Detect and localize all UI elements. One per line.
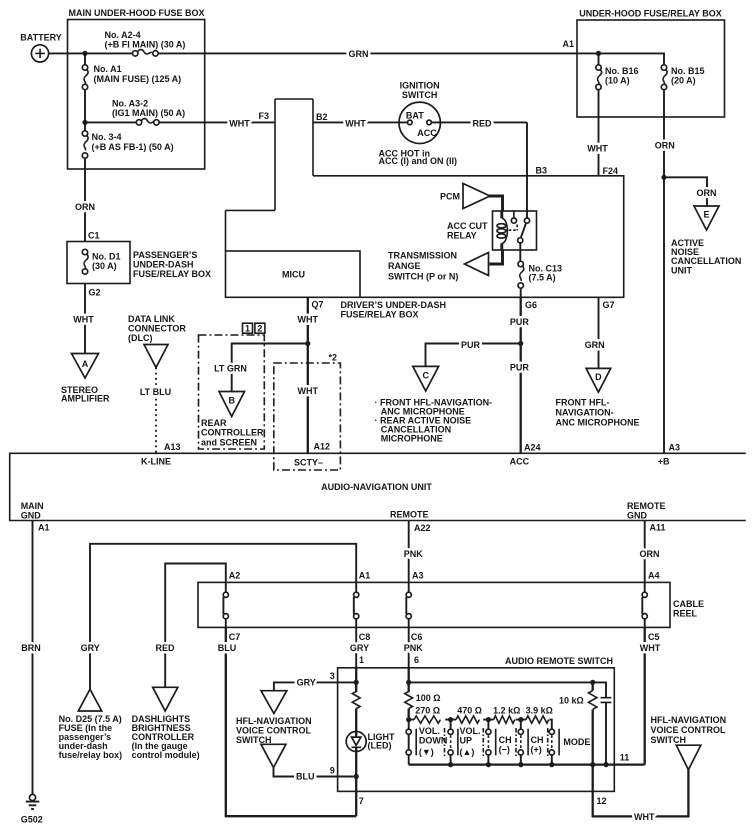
svg-text:7: 7	[359, 796, 364, 806]
svg-text:A13: A13	[164, 442, 181, 452]
svg-text:SWITCH: SWITCH	[651, 735, 687, 745]
svg-text:WHT: WHT	[229, 118, 250, 128]
svg-text:10 kΩ: 10 kΩ	[559, 696, 584, 706]
svg-text:AMPLIFIER: AMPLIFIER	[61, 394, 110, 404]
svg-text:PUR: PUR	[510, 362, 530, 372]
svg-text:B2: B2	[316, 112, 328, 122]
svg-text:BATTERY: BATTERY	[20, 33, 62, 43]
svg-text:A11: A11	[650, 523, 666, 533]
svg-text:UNDER-HOOD FUSE/RELAY BOX: UNDER-HOOD FUSE/RELAY BOX	[579, 8, 722, 18]
svg-text:G2: G2	[89, 287, 101, 297]
svg-text:RELAY: RELAY	[447, 231, 477, 241]
svg-text:ORN: ORN	[640, 549, 660, 559]
svg-text:A12: A12	[314, 441, 331, 451]
svg-text:C7: C7	[229, 632, 241, 642]
svg-text:6: 6	[414, 655, 419, 665]
svg-text:D: D	[595, 372, 602, 382]
svg-text:MICU: MICU	[282, 269, 305, 279]
svg-text:MAIN UNDER-HOOD FUSE BOX: MAIN UNDER-HOOD FUSE BOX	[68, 8, 204, 18]
svg-text:GRN: GRN	[585, 340, 605, 350]
svg-text:(LED): (LED)	[368, 741, 392, 751]
svg-text:(20 A): (20 A)	[671, 76, 696, 86]
svg-text:WHT: WHT	[640, 643, 661, 653]
svg-text:(7.5 A): (7.5 A)	[529, 273, 556, 283]
svg-text:CABLE: CABLE	[673, 599, 704, 609]
svg-text:(+B AS FB-1) (50 A): (+B AS FB-1) (50 A)	[92, 142, 174, 152]
svg-text:TRANSMISSION: TRANSMISSION	[388, 251, 457, 261]
svg-text:1: 1	[359, 655, 364, 665]
svg-text:GRY: GRY	[81, 643, 100, 653]
svg-text:REMOTE: REMOTE	[627, 501, 666, 511]
svg-text:(DLC): (DLC)	[128, 333, 153, 343]
svg-text:No. 3-4: No. 3-4	[92, 132, 122, 142]
svg-text:ANC MICROPHONE: ANC MICROPHONE	[556, 418, 640, 428]
svg-text:SWITCH: SWITCH	[402, 90, 438, 100]
svg-text:UP: UP	[460, 736, 473, 746]
svg-text:RANGE: RANGE	[388, 261, 421, 271]
svg-text:A: A	[82, 359, 89, 369]
svg-text:MODE: MODE	[563, 737, 590, 747]
svg-text:Q7: Q7	[312, 299, 324, 309]
svg-text:PNK: PNK	[404, 643, 424, 653]
svg-text:WHT: WHT	[298, 315, 319, 325]
svg-text:A3: A3	[412, 571, 424, 581]
svg-text:+B: +B	[658, 457, 670, 467]
svg-text:BAT: BAT	[406, 111, 424, 121]
svg-text:control module): control module)	[132, 750, 200, 760]
svg-text:REEL: REEL	[673, 609, 698, 619]
svg-text:RED: RED	[155, 643, 175, 653]
svg-text:1.2 kΩ: 1.2 kΩ	[493, 705, 520, 715]
svg-text:HFL-NAVIGATION: HFL-NAVIGATION	[651, 715, 727, 725]
svg-text:No. B16: No. B16	[605, 66, 639, 76]
svg-text:BLU: BLU	[218, 643, 237, 653]
svg-text:PCM: PCM	[440, 192, 460, 202]
svg-text:G7: G7	[603, 300, 615, 310]
svg-text:PUR: PUR	[461, 340, 481, 350]
svg-text:GRY: GRY	[350, 643, 369, 653]
svg-text:GRN: GRN	[349, 49, 369, 59]
svg-text:WHT: WHT	[587, 143, 608, 153]
svg-text:No. A3-2: No. A3-2	[112, 98, 148, 108]
svg-text:B: B	[228, 396, 235, 406]
svg-text:*2: *2	[329, 353, 338, 363]
svg-text:GND: GND	[627, 510, 648, 520]
svg-text:DOWN: DOWN	[419, 736, 448, 746]
svg-text:(▲): (▲)	[460, 747, 475, 757]
svg-text:12: 12	[597, 796, 607, 806]
svg-text:FUSE/RELAY BOX: FUSE/RELAY BOX	[133, 269, 211, 279]
svg-text:WHT: WHT	[634, 812, 655, 822]
svg-text:470 Ω: 470 Ω	[457, 705, 482, 715]
svg-text:CONTROLLER: CONTROLLER	[201, 428, 264, 438]
svg-text:AUDIO-NAVIGATION UNIT: AUDIO-NAVIGATION UNIT	[321, 482, 432, 492]
svg-text:C5: C5	[648, 632, 660, 642]
svg-text:MICROPHONE: MICROPHONE	[381, 434, 443, 444]
svg-text:REAR: REAR	[201, 418, 227, 428]
svg-text:GRY: GRY	[297, 678, 316, 688]
svg-text:(▼): (▼)	[419, 747, 434, 757]
svg-text:E: E	[703, 210, 709, 220]
svg-text:LT BLU: LT BLU	[140, 387, 171, 397]
svg-text:3: 3	[330, 671, 335, 681]
svg-text:A22: A22	[414, 523, 431, 533]
svg-text:BRN: BRN	[21, 643, 41, 653]
svg-text:A4: A4	[648, 571, 660, 581]
svg-text:A1: A1	[359, 571, 371, 581]
svg-text:A3: A3	[669, 442, 681, 452]
svg-text:A1: A1	[38, 522, 50, 532]
svg-text:GND: GND	[21, 511, 42, 521]
svg-text:WHT: WHT	[345, 118, 366, 128]
svg-text:fuse/relay box): fuse/relay box)	[59, 750, 123, 760]
svg-text:PNK: PNK	[404, 549, 424, 559]
svg-text:PUR: PUR	[510, 317, 530, 327]
svg-text:No. A1: No. A1	[94, 64, 122, 74]
svg-text:and SCREEN: and SCREEN	[201, 437, 257, 447]
svg-text:NAVIGATION-: NAVIGATION-	[556, 408, 614, 418]
svg-text:A2: A2	[229, 571, 241, 581]
svg-text:G502: G502	[21, 815, 43, 825]
svg-text:WHT: WHT	[73, 315, 94, 325]
svg-text:A1: A1	[563, 39, 575, 49]
svg-text:VOICE CONTROL: VOICE CONTROL	[651, 725, 727, 735]
svg-text:VOL.: VOL.	[460, 726, 481, 736]
svg-text:ORN: ORN	[697, 188, 717, 198]
svg-text:(IG1 MAIN) (50 A): (IG1 MAIN) (50 A)	[112, 108, 185, 118]
svg-text:MAIN: MAIN	[21, 501, 44, 511]
svg-text:G6: G6	[525, 300, 537, 310]
svg-text:UNIT: UNIT	[671, 265, 692, 275]
svg-text:K-LINE: K-LINE	[141, 457, 171, 467]
svg-text:100 Ω: 100 Ω	[416, 693, 441, 703]
svg-text:BLU: BLU	[296, 772, 315, 782]
svg-text:(30 A): (30 A)	[92, 261, 117, 271]
svg-text:DATA LINK: DATA LINK	[128, 314, 175, 324]
svg-text:F3: F3	[259, 111, 270, 121]
svg-text:ACC (I) and ON (II): ACC (I) and ON (II)	[379, 156, 458, 166]
svg-text:(+): (+)	[531, 744, 542, 754]
svg-text:3.9 kΩ: 3.9 kΩ	[526, 705, 553, 715]
svg-text:(−): (−)	[499, 744, 510, 754]
svg-text:2: 2	[257, 324, 262, 334]
svg-text:SWITCH (P or N): SWITCH (P or N)	[388, 272, 458, 282]
svg-text:1: 1	[245, 324, 250, 334]
svg-text:REMOTE: REMOTE	[390, 510, 429, 520]
svg-text:No. D1: No. D1	[92, 251, 121, 261]
svg-text:WHT: WHT	[298, 386, 319, 396]
svg-text:B3: B3	[536, 165, 548, 175]
svg-text:LT GRN: LT GRN	[214, 364, 247, 374]
svg-text:No. B15: No. B15	[671, 66, 705, 76]
svg-text:11: 11	[620, 752, 630, 762]
svg-text:CONNECTOR: CONNECTOR	[128, 323, 186, 333]
svg-text:9: 9	[330, 766, 335, 776]
svg-text:270 Ω: 270 Ω	[415, 705, 440, 715]
svg-text:FRONT HFL-: FRONT HFL-	[556, 397, 610, 407]
svg-text:DRIVER’S UNDER-DASH: DRIVER’S UNDER-DASH	[341, 300, 447, 310]
svg-text:A24: A24	[524, 442, 541, 452]
svg-text:C6: C6	[411, 632, 423, 642]
svg-text:(+B FI MAIN) (30 A): (+B FI MAIN) (30 A)	[105, 40, 186, 50]
svg-text:ACC: ACC	[510, 457, 530, 467]
svg-text:C: C	[422, 371, 429, 381]
svg-text:(MAIN FUSE) (125 A): (MAIN FUSE) (125 A)	[94, 74, 182, 84]
svg-text:PASSENGER’S: PASSENGER’S	[133, 250, 197, 260]
svg-text:UNDER-DASH: UNDER-DASH	[133, 259, 194, 269]
svg-text:AUDIO REMOTE SWITCH: AUDIO REMOTE SWITCH	[505, 656, 613, 666]
svg-text:SWITCH: SWITCH	[236, 735, 272, 745]
svg-text:No. A2-4: No. A2-4	[105, 30, 141, 40]
svg-text:C8: C8	[359, 632, 371, 642]
svg-text:ORN: ORN	[75, 202, 95, 212]
svg-text:VOL.: VOL.	[419, 726, 440, 736]
svg-text:F24: F24	[603, 166, 619, 176]
svg-text:SCTY–: SCTY–	[294, 457, 323, 467]
svg-text:ACC CUT: ACC CUT	[447, 221, 488, 231]
svg-text:FUSE/RELAY BOX: FUSE/RELAY BOX	[341, 310, 419, 320]
svg-text:ACC: ACC	[417, 128, 437, 138]
svg-text:C1: C1	[88, 230, 100, 240]
svg-text:RED: RED	[472, 118, 492, 128]
svg-text:(10 A): (10 A)	[605, 76, 630, 86]
svg-text:ORN: ORN	[655, 140, 675, 150]
